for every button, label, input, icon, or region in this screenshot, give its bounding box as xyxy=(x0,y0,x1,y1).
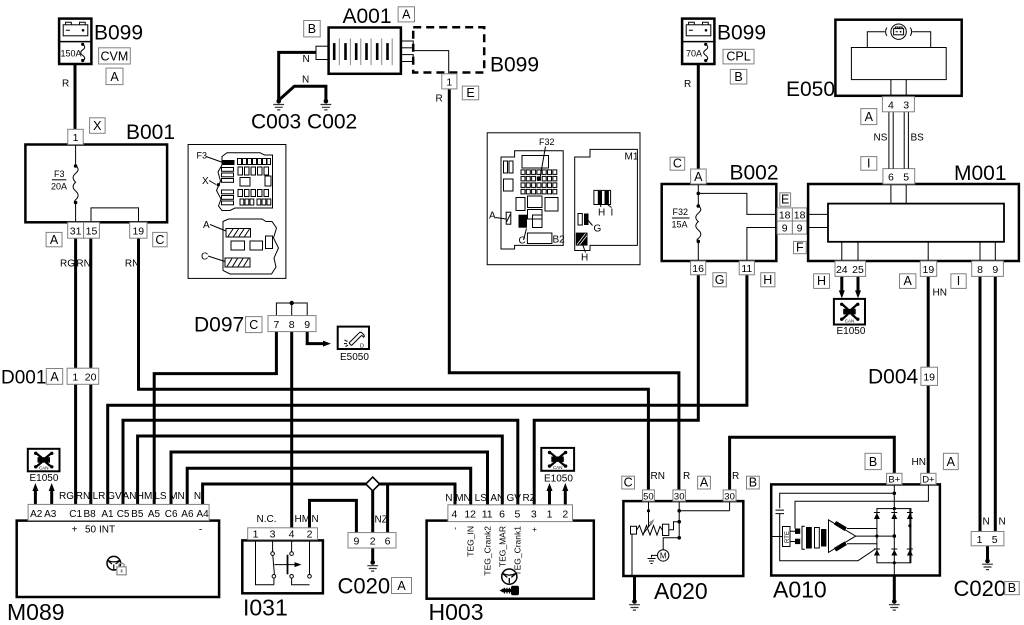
svg-text:3: 3 xyxy=(903,99,909,111)
battery cells xyxy=(334,43,387,60)
CAN symbol E1050 (left) xyxy=(28,449,60,472)
svg-text:16: 16 xyxy=(692,263,704,275)
ground symbol A010 xyxy=(892,599,897,604)
svg-text:A: A xyxy=(50,233,59,247)
svg-text:RTE: RTE xyxy=(785,531,791,543)
battery glyph xyxy=(686,22,711,36)
wire HM: D097 pin8 down to I031 pin4 xyxy=(290,331,293,528)
H/I bars frame xyxy=(594,190,611,204)
svg-text:RN: RN xyxy=(651,471,665,482)
ground symbol A020 xyxy=(632,599,637,604)
svg-text:TEG_Crank2: TEG_Crank2 xyxy=(483,526,493,576)
hatched bar A xyxy=(226,229,251,238)
svg-text:F32: F32 xyxy=(539,137,555,147)
svg-text:9: 9 xyxy=(304,319,310,331)
svg-text:B: B xyxy=(869,455,877,469)
svg-text:B099: B099 xyxy=(717,22,766,45)
M001 box xyxy=(808,184,1019,261)
svg-text:9: 9 xyxy=(992,264,998,276)
rectifier frame xyxy=(877,509,911,563)
svg-text:+: + xyxy=(529,527,539,532)
svg-text:CAN: CAN xyxy=(553,465,563,470)
svg-text:-: - xyxy=(450,527,460,530)
svg-text:N: N xyxy=(303,54,310,65)
svg-text:A: A xyxy=(402,8,411,22)
svg-text:RG: RG xyxy=(60,259,75,270)
lamp wires xyxy=(867,32,930,48)
svg-text:RN: RN xyxy=(76,491,90,502)
wire N: M001 pin8 to C020 pin1 xyxy=(979,276,982,531)
pins 24 25 box xyxy=(835,261,866,276)
svg-text:A: A xyxy=(947,455,956,469)
solenoid coil xyxy=(631,526,637,534)
svg-text:A: A xyxy=(700,475,709,489)
svg-text:6: 6 xyxy=(499,509,505,521)
middle rects xyxy=(231,241,245,250)
svg-text:5: 5 xyxy=(514,509,520,521)
key-in-lock icon xyxy=(502,569,517,584)
svg-text:G: G xyxy=(594,224,602,235)
svg-text:B+: B+ xyxy=(888,474,900,485)
svg-text:LS: LS xyxy=(154,491,167,502)
winding bars xyxy=(834,521,847,531)
svg-text:LS: LS xyxy=(475,493,488,504)
svg-text:C003 C002: C003 C002 xyxy=(251,111,357,134)
svg-text:HN: HN xyxy=(933,288,947,299)
svg-text:H003: H003 xyxy=(429,599,484,625)
svg-text:D004: D004 xyxy=(868,366,919,389)
svg-text:RG: RG xyxy=(59,491,74,502)
svg-text:1: 1 xyxy=(253,528,259,540)
battery B099 left box xyxy=(59,19,91,64)
wire: C020 pin6 riser to N bus xyxy=(386,484,389,533)
qualifier B box xyxy=(747,476,760,489)
svg-text:N: N xyxy=(445,493,452,504)
pin B+ box xyxy=(887,473,902,484)
svg-text:X: X xyxy=(202,176,209,187)
svg-text:B2: B2 xyxy=(553,235,566,246)
C020 pin strip 9 2 6 xyxy=(348,533,396,548)
wire RZ: B002 pin16 down, left, down to H003 pin3 xyxy=(534,275,698,505)
A010 box xyxy=(771,484,940,575)
svg-text:A: A xyxy=(203,220,210,231)
top rect xyxy=(522,156,549,169)
qualifier B box xyxy=(730,69,747,84)
leader A xyxy=(210,225,226,232)
pins 4 3 box xyxy=(882,97,914,112)
solenoid arrow xyxy=(644,522,653,534)
svg-text:C020: C020 xyxy=(954,576,1007,601)
svg-text:TEG_IN: TEG_IN xyxy=(466,526,476,557)
svg-text:N.C.: N.C. xyxy=(257,514,277,525)
qualifier I box (M001/8) xyxy=(951,274,966,289)
A001 box xyxy=(329,28,401,74)
rectifier diodes xyxy=(874,513,913,556)
right connector outline xyxy=(575,149,638,250)
pins 30 junction xyxy=(679,501,729,538)
svg-text:6: 6 xyxy=(385,536,391,548)
qualifier C box xyxy=(246,317,262,333)
svg-text:5: 5 xyxy=(992,534,998,546)
wire HN: M001 pin19 through D004 to A010 D+ xyxy=(927,276,930,473)
qualifier C box xyxy=(622,476,635,489)
svg-text:A6: A6 xyxy=(181,509,194,520)
svg-text:AN: AN xyxy=(490,493,504,504)
pin 31 box xyxy=(68,222,84,238)
svg-text:9: 9 xyxy=(353,536,359,548)
svg-text:AN: AN xyxy=(123,491,137,502)
ground symbol C002 xyxy=(324,99,329,104)
pin 11 box xyxy=(739,261,754,275)
motor xyxy=(658,550,669,561)
svg-text:D+: D+ xyxy=(922,474,935,485)
B002 box xyxy=(662,184,777,261)
svg-text:4: 4 xyxy=(289,528,295,540)
svg-text:A: A xyxy=(110,70,119,84)
svg-text:18: 18 xyxy=(794,209,806,221)
svg-text:RN: RN xyxy=(76,259,90,270)
H003 box xyxy=(427,521,594,599)
svg-text:31: 31 xyxy=(70,226,82,238)
wire RN: B001 pin19 down, right, down to A020 pin50 xyxy=(139,238,649,491)
svg-text:70A: 70A xyxy=(686,49,702,59)
qualifier B box xyxy=(865,453,881,469)
svg-text:I: I xyxy=(957,274,960,288)
svg-text:18: 18 xyxy=(779,209,791,221)
qualifier A box xyxy=(46,369,62,385)
M089 box xyxy=(17,521,219,597)
svg-text:C5: C5 xyxy=(117,509,130,520)
ground C002 wire N branch xyxy=(278,86,326,100)
dashed body B099 xyxy=(413,27,484,72)
svg-text:1: 1 xyxy=(446,76,452,88)
svg-text:C: C xyxy=(155,233,164,247)
svg-text:7: 7 xyxy=(273,319,279,331)
splice diamond xyxy=(366,477,380,491)
svg-text:E5050: E5050 xyxy=(340,352,369,363)
qualifier C box xyxy=(153,232,167,246)
internal link pins 15-19 xyxy=(91,208,139,222)
svg-text:A: A xyxy=(397,579,406,593)
qualifier A box xyxy=(943,453,958,469)
wire LS: M089 C6 up, right, down to H003 pin11 xyxy=(171,452,488,505)
D097 pin box 7 8 9 xyxy=(268,316,316,332)
upper fuse grid right xyxy=(238,159,242,165)
svg-text:H: H xyxy=(598,208,605,219)
svg-text:X: X xyxy=(93,119,102,133)
svg-text:9: 9 xyxy=(782,222,788,234)
internal switch drawing xyxy=(256,540,312,584)
svg-text:R: R xyxy=(732,471,739,482)
A020 box xyxy=(623,501,743,576)
stator delta winding xyxy=(829,520,856,553)
svg-text:R: R xyxy=(684,79,691,90)
svg-text:CPL: CPL xyxy=(726,50,750,64)
pin D+ box xyxy=(921,473,936,484)
svg-text:G: G xyxy=(715,273,725,287)
svg-text:E: E xyxy=(466,86,474,100)
M001 inner module xyxy=(828,204,1004,242)
qualifier A box xyxy=(398,7,414,22)
left branch to ground xyxy=(632,534,635,576)
svg-text:N: N xyxy=(312,514,319,525)
ground stem A010 xyxy=(893,576,896,601)
qualifier A box xyxy=(106,68,123,85)
E050 inner module xyxy=(851,48,946,80)
svg-text:A: A xyxy=(694,170,703,184)
svg-text:C020: C020 xyxy=(338,574,391,599)
internal: feed from pin 50 xyxy=(631,501,730,576)
leader F3 xyxy=(206,157,222,163)
svg-text:RZ: RZ xyxy=(523,493,536,504)
svg-text:B: B xyxy=(1008,581,1016,595)
internal pin names xyxy=(72,525,203,536)
CAN arrows from H003 pins 1,2 up to E1050 xyxy=(548,489,551,505)
svg-text:A: A xyxy=(904,274,913,288)
C020 B pin strip 1 5 xyxy=(971,532,1004,546)
leader C xyxy=(208,256,225,262)
qualifier A box xyxy=(392,578,412,594)
qualifier F box xyxy=(794,241,807,253)
svg-text:GV: GV xyxy=(506,493,521,504)
wire N: I031 pin2 up, right, down to C020 pin9 xyxy=(310,500,357,532)
svg-text:CAN: CAN xyxy=(39,466,49,471)
svg-text:20: 20 xyxy=(85,372,97,384)
svg-text:20A: 20A xyxy=(51,182,67,192)
M089 pin strip xyxy=(28,504,209,520)
qualifier C box xyxy=(670,157,685,170)
mid rects xyxy=(516,198,525,211)
svg-text:CAN: CAN xyxy=(845,319,855,324)
D001 pin box 1 20 xyxy=(67,368,99,384)
svg-text:B5: B5 xyxy=(131,509,144,520)
A001 right tabs xyxy=(401,41,413,48)
B001 box xyxy=(25,145,167,223)
svg-text:50: 50 xyxy=(85,525,97,536)
svg-text:BS: BS xyxy=(911,133,925,144)
pin 16 box xyxy=(691,261,706,275)
svg-text:3: 3 xyxy=(531,509,537,521)
svg-text:E1050: E1050 xyxy=(837,326,866,337)
svg-text:6: 6 xyxy=(888,172,894,184)
svg-text:-: - xyxy=(199,525,202,536)
wire name row xyxy=(59,491,201,502)
CAN arrows from M001 pins 24,25 down to E1050 xyxy=(840,276,843,292)
battery B099 right box xyxy=(682,19,714,64)
svg-text:B8: B8 xyxy=(83,509,96,520)
svg-text:A020: A020 xyxy=(654,578,708,604)
svg-text:M089: M089 xyxy=(7,599,65,625)
svg-text:I: I xyxy=(867,156,870,170)
svg-text:A4: A4 xyxy=(196,509,209,520)
svg-text:H: H xyxy=(763,273,772,287)
svg-text:1: 1 xyxy=(977,534,983,546)
charge warning lamp xyxy=(886,24,912,39)
E5050 connector symbol xyxy=(338,327,369,350)
black elements right panel xyxy=(537,176,541,181)
svg-text:R: R xyxy=(436,94,443,105)
ignition feed lines inside dashed box xyxy=(413,51,449,74)
wire MN: M089 A6 up, right, down to H003 pin12 xyxy=(187,468,471,505)
svg-text:E1050: E1050 xyxy=(30,473,59,484)
wire RN: B001 pin15 to M089 B8 xyxy=(89,238,92,505)
svg-text:B002: B002 xyxy=(730,162,779,185)
svg-text:M1: M1 xyxy=(625,152,639,163)
internal pin stubs xyxy=(808,184,995,261)
capacitor xyxy=(776,510,785,513)
top rail to capacitor xyxy=(780,493,895,508)
svg-text:M: M xyxy=(660,551,667,560)
ground symbol C020 B xyxy=(985,559,990,564)
svg-text:B001: B001 xyxy=(126,121,175,144)
I031 pin strip xyxy=(248,528,318,540)
qualifier X box xyxy=(90,118,106,134)
pin 30 A box xyxy=(673,490,686,501)
hatched bar A + leader xyxy=(506,212,511,224)
svg-text:M001: M001 xyxy=(954,162,1007,185)
CPL box xyxy=(723,49,754,64)
svg-text:E: E xyxy=(781,192,789,206)
A001 left tab xyxy=(316,46,329,59)
svg-text:N: N xyxy=(302,75,309,86)
wire N: M001 pin9 to C020 pin5 xyxy=(994,276,997,531)
svg-text:C: C xyxy=(249,318,258,332)
svg-text:N: N xyxy=(983,517,990,528)
CAN arrows from M089 A2 A3 up to E1050 xyxy=(34,489,37,505)
svg-text:50: 50 xyxy=(643,491,654,502)
svg-text:H: H xyxy=(817,274,826,288)
svg-text:A: A xyxy=(865,110,874,124)
svg-text:D097: D097 xyxy=(194,314,244,337)
wire NZ: splice to C020 pin2 xyxy=(371,484,374,533)
svg-text:2: 2 xyxy=(307,528,313,540)
svg-text:15A: 15A xyxy=(672,220,688,230)
wire HM: M089 A5 up, right to D097 pin7 xyxy=(154,331,276,504)
internal pin names rotated xyxy=(450,526,540,576)
E050 box xyxy=(835,20,961,96)
arrow from D097 pin9 to E5050 xyxy=(307,331,324,343)
svg-text:3: 3 xyxy=(270,528,276,540)
motor ground xyxy=(652,555,658,557)
svg-text:C: C xyxy=(519,236,526,247)
svg-text:MN: MN xyxy=(169,491,185,502)
svg-text:8: 8 xyxy=(289,319,295,331)
svg-text:C1: C1 xyxy=(69,509,82,520)
svg-text:NS: NS xyxy=(874,133,888,144)
I031 box xyxy=(242,540,323,593)
svg-text:19: 19 xyxy=(923,264,935,276)
fuse grid 4x8 xyxy=(521,170,525,175)
svg-text:C: C xyxy=(201,252,208,263)
svg-text:1: 1 xyxy=(73,132,79,144)
svg-text:19: 19 xyxy=(923,372,935,384)
svg-text:+: + xyxy=(72,525,78,536)
svg-text:B: B xyxy=(308,22,316,36)
svg-text:A3: A3 xyxy=(44,509,57,520)
svg-text:HM: HM xyxy=(137,491,153,502)
pin labels xyxy=(30,509,209,520)
svg-text:C: C xyxy=(673,156,682,170)
svg-text:A5: A5 xyxy=(148,509,161,520)
internal link A to pin18 xyxy=(698,193,776,214)
ground stem C020 B xyxy=(986,546,989,560)
svg-text:R: R xyxy=(683,471,690,482)
svg-text:RN: RN xyxy=(125,259,139,270)
inner stubs to pins xyxy=(891,80,906,97)
svg-text:11: 11 xyxy=(741,263,752,275)
svg-text:B099: B099 xyxy=(94,22,143,45)
internal link pin9 to pin11 xyxy=(747,228,776,262)
svg-text:N: N xyxy=(194,491,201,502)
fuse F32 internal xyxy=(697,184,699,261)
svg-text:TEG_Crank1: TEG_Crank1 xyxy=(513,526,523,576)
svg-text:A1: A1 xyxy=(101,509,114,520)
pin 1 box xyxy=(442,74,457,89)
H003 pin strip xyxy=(448,505,573,522)
lower connector outline xyxy=(223,219,279,274)
qualifier E box xyxy=(462,86,478,100)
svg-text:F: F xyxy=(796,240,804,254)
svg-text:N: N xyxy=(999,517,1006,528)
pin 15 box xyxy=(84,222,100,238)
qualifier G box xyxy=(713,273,726,287)
svg-text:8: 8 xyxy=(977,264,983,276)
interconnect pin boxes 18/18 9/9 xyxy=(792,214,808,227)
fuse F3 internal xyxy=(75,145,77,223)
svg-text:1: 1 xyxy=(72,372,78,384)
panel frame xyxy=(487,133,640,265)
svg-text:D001: D001 xyxy=(1,368,46,389)
svg-text:30: 30 xyxy=(674,491,685,502)
svg-text:150A: 150A xyxy=(61,49,82,59)
svg-text:24: 24 xyxy=(836,264,848,276)
brushes xyxy=(796,529,800,533)
pin A box xyxy=(691,169,707,184)
H black square leader xyxy=(583,246,586,253)
D+ internal feed xyxy=(795,484,928,528)
svg-text:A010: A010 xyxy=(773,577,827,603)
pin 19 box xyxy=(130,222,147,238)
svg-text:19: 19 xyxy=(132,226,144,238)
qualifier A box xyxy=(698,476,711,489)
wire LR: M089 A1 up, right to B002 pin11 xyxy=(108,275,747,505)
motor feed xyxy=(663,538,679,550)
svg-text:HM: HM xyxy=(295,514,311,525)
svg-text:NZ: NZ xyxy=(375,515,388,526)
left connector back outline xyxy=(501,151,563,249)
leader X xyxy=(209,181,216,185)
svg-text:F32: F32 xyxy=(673,207,689,217)
upper connector outline xyxy=(217,153,273,211)
qualifier H box (B002/11) xyxy=(761,273,775,287)
svg-text:12: 12 xyxy=(464,509,476,521)
B+ internal rail xyxy=(893,484,895,575)
svg-text:LR: LR xyxy=(93,491,106,502)
svg-text:30: 30 xyxy=(724,491,735,502)
pins 8 9 box xyxy=(972,261,1004,276)
svg-text:11: 11 xyxy=(482,509,493,521)
pins 6 5 box xyxy=(883,169,915,184)
svg-text:A: A xyxy=(50,370,59,384)
svg-text:E1050: E1050 xyxy=(544,474,573,485)
F32 black fuse + leader xyxy=(540,147,545,177)
wire N: M089 A4 up, right through splice to H003 pin4 xyxy=(203,484,455,505)
svg-text:R: R xyxy=(62,79,69,90)
ground symbol C003 xyxy=(276,99,281,104)
qualifier H box (M001/24) xyxy=(814,274,830,289)
wire R: battery B099 right to B002 pin A xyxy=(697,64,700,171)
CVM box xyxy=(99,48,131,64)
